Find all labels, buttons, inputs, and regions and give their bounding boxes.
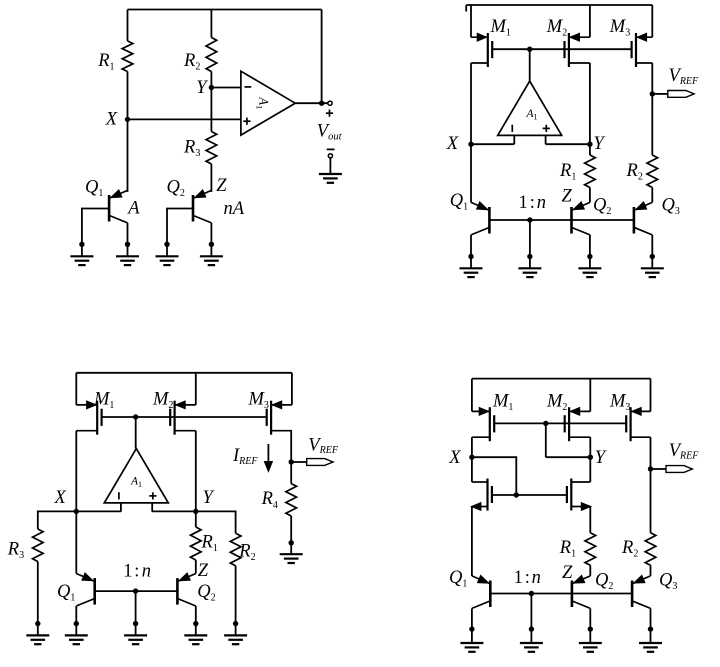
node VREF — [289, 459, 294, 464]
wire M1 drain to node X — [471, 437, 473, 482]
ground (Q3 collector) — [641, 267, 664, 269]
wire M3 drain to R4 through VREF node — [290, 431, 292, 484]
wire M4 source to Q1 emitter — [471, 507, 473, 576]
node base ground junction — [529, 626, 534, 631]
svg-text:M3: M3 — [248, 390, 269, 412]
wire rail to M1 source — [75, 373, 77, 405]
resistor R1 — [191, 527, 202, 560]
wire M5 source to R1 — [589, 507, 591, 533]
svg-text:Q2: Q2 — [593, 196, 611, 218]
node Q3 collector ground junction — [650, 254, 655, 259]
transistor M1 (PMOS) — [472, 407, 494, 441]
wire rail to M1 source — [470, 5, 472, 37]
wire M3 drain to R2 through VREF node — [650, 437, 652, 533]
ground (Q2 collector) — [200, 255, 223, 257]
resistor R2 — [230, 533, 241, 566]
svg-text:Z: Z — [216, 176, 227, 196]
wire gate rail M1-M2-M3 — [492, 48, 631, 50]
svg-text:Q1: Q1 — [85, 178, 103, 200]
ground (R4) — [280, 553, 303, 555]
wire node X to lower pair gates — [472, 457, 516, 495]
wire M3 drain to R2 through VREF node — [651, 63, 653, 155]
svg-text:Q1: Q1 — [450, 191, 468, 213]
node Y — [193, 509, 198, 514]
svg-text:R2: R2 — [621, 538, 638, 560]
wire R4 to ground — [290, 516, 292, 554]
svg-text:Vout: Vout — [317, 122, 343, 143]
wire node Y to noninverting input — [152, 510, 196, 512]
wire node X to R3 — [38, 511, 77, 529]
label + (Vout polarity) — [326, 112, 333, 114]
wire Q2 collector to ground — [210, 223, 212, 256]
wire gate rail M1-M2-M3 — [494, 422, 626, 424]
resistor R3 — [33, 529, 44, 562]
node R3 ground junction — [35, 621, 40, 626]
wire R1 to Q2 emitter through node Z — [589, 565, 591, 576]
wire rail to R1 — [127, 10, 129, 42]
svg-text:M2: M2 — [546, 392, 567, 414]
transistor Q2 (bipolar) — [177, 573, 195, 606]
arrow IREF (current direction) — [264, 444, 272, 472]
node X — [468, 142, 473, 147]
transistor M3 (PMOS) — [632, 33, 653, 67]
svg-text:M2: M2 — [546, 17, 567, 39]
node base rail junction — [527, 217, 532, 222]
wire rail to M3 source — [291, 373, 293, 405]
ground (Q1 collector) — [65, 634, 88, 636]
svg-text:M1: M1 — [490, 17, 511, 39]
wire R1 to Q2 emitter through node Z — [195, 560, 197, 574]
wire Q2 base to ground — [167, 209, 193, 257]
node Q2 collector ground junction — [193, 621, 198, 626]
terminal VREF flag — [291, 461, 307, 463]
wire Q1 collector to ground — [127, 223, 129, 256]
svg-text:M1: M1 — [93, 390, 114, 412]
wire node Y to noninverting input — [546, 143, 590, 145]
wire node Y to R2 — [196, 511, 236, 533]
wire rail to M3 source — [651, 5, 653, 37]
wire node X to inverting input — [76, 510, 121, 512]
transistor Q1 (area A) — [109, 190, 127, 223]
svg-text:n: n — [142, 561, 151, 581]
node X — [469, 455, 474, 460]
node Q2 collector ground junction — [588, 626, 593, 631]
node Q1 base ground junction — [79, 242, 84, 247]
svg-text:Q1: Q1 — [449, 568, 467, 590]
ground (Q1 collector) — [116, 255, 139, 257]
ground (R2) — [224, 634, 247, 636]
ground (Q2 collector) — [184, 634, 207, 636]
wire gate rail M1-M2-M3 — [102, 416, 267, 418]
node Q2 collector ground junction — [587, 254, 592, 259]
node Q3 collector ground junction — [648, 626, 653, 631]
op-amp A1 (output up) — [498, 81, 562, 144]
wire output feedback up to rail — [321, 10, 323, 104]
node output junction — [319, 101, 324, 106]
ground (Q1 collector) — [460, 642, 483, 644]
svg-text:R4: R4 — [261, 489, 278, 511]
svg-text:R1: R1 — [201, 533, 218, 555]
wire rail to M3 source — [650, 379, 652, 412]
node lower gate rail junction — [514, 492, 519, 497]
svg-text:Z: Z — [198, 561, 209, 581]
svg-text:R3: R3 — [183, 138, 200, 160]
resistor R1 — [122, 41, 133, 72]
ground (base rail) — [520, 642, 543, 644]
svg-text:M3: M3 — [609, 392, 630, 414]
node Q1 collector ground junction — [74, 621, 79, 626]
node X — [125, 117, 130, 122]
svg-text:X: X — [105, 109, 118, 129]
wire base rail to ground — [530, 594, 532, 644]
transistor M4 (cross-coupled NMOS left) — [471, 479, 492, 511]
transistor Q1 (bipolar) — [76, 573, 94, 606]
wire R3 to Q2 emitter through node Z — [210, 164, 212, 192]
wire base rail Q1-Q2-Q3 — [489, 219, 634, 221]
node Q2 base ground junction — [164, 242, 169, 247]
wire gate rail to op-amp output — [135, 417, 137, 449]
ground (Q2 base) — [156, 255, 179, 257]
node base ground junction — [527, 254, 532, 259]
svg-text:Q2: Q2 — [167, 178, 185, 200]
svg-text:M1: M1 — [492, 392, 513, 414]
node Q1 collector ground junction — [468, 254, 473, 259]
wire top supply rail (circuit 2) — [466, 4, 652, 6]
wire R2 to R3 through node Y — [210, 72, 212, 132]
svg-text:Z: Z — [562, 563, 573, 583]
wire Q3 collector to ground — [651, 235, 653, 268]
wire R2 to ground — [235, 566, 237, 636]
node VREF — [650, 91, 655, 96]
svg-text:Q3: Q3 — [662, 196, 680, 218]
wire R1 to Q1 emitter through node X — [127, 72, 129, 192]
wire R3 to ground — [37, 562, 39, 636]
svg-text:Q2: Q2 — [197, 582, 215, 604]
node Y — [587, 142, 592, 147]
ground (base rail) — [518, 267, 541, 269]
svg-text:M3: M3 — [609, 17, 630, 39]
svg-text::: : — [525, 568, 530, 588]
transistor Q1 (bipolar) — [472, 575, 490, 608]
terminal VREF flag — [652, 93, 668, 95]
resistor R1 — [585, 533, 596, 566]
node base ground junction — [133, 621, 138, 626]
ground (Q1 collector) — [460, 267, 483, 269]
wire base rail to ground — [529, 220, 531, 268]
wire rail to M2 source — [589, 5, 591, 37]
wire gate tap to node Y — [546, 456, 591, 458]
svg-text:Q1: Q1 — [57, 582, 75, 604]
wire node X to inverting input — [471, 143, 514, 145]
transistor M2 (PMOS) — [565, 33, 590, 67]
transistor Q2 (area nA) — [193, 190, 211, 223]
svg-text:Z: Z — [562, 187, 573, 207]
node Q1 collector ground junction — [469, 626, 474, 631]
svg-text:nA: nA — [224, 199, 245, 219]
svg-text:Y: Y — [196, 78, 208, 98]
svg-text:R2: R2 — [238, 542, 255, 564]
wire rail end tick — [465, 5, 467, 12]
wire R2 to Q3 emitter — [650, 565, 652, 576]
ground (Q1 base) — [70, 255, 93, 257]
ground (Q3 collector) — [639, 642, 662, 644]
wire Q2 collector to ground — [195, 606, 197, 635]
wire Q1 base to ground — [82, 209, 109, 257]
transistor Q2 (bipolar) — [572, 575, 590, 608]
terminal VREF flag — [651, 468, 667, 470]
wire M2 drain to node Y — [195, 431, 197, 527]
resistor R3 — [206, 132, 217, 165]
svg-text:VREF: VREF — [308, 435, 339, 456]
node Y — [209, 85, 214, 90]
svg-text:A1: A1 — [525, 108, 537, 121]
node base rail junction — [133, 588, 138, 593]
wire M2 drain to node Y — [589, 437, 591, 482]
wire rail to R2 — [210, 10, 212, 38]
resistor R2 — [645, 533, 656, 566]
wire Q1 collector to ground — [75, 606, 77, 635]
node gate rail junction — [527, 47, 532, 52]
svg-text:X: X — [448, 448, 461, 468]
wire Vout negative terminal to ground — [329, 158, 331, 174]
transistor M5 (cross-coupled NMOS right) — [567, 479, 591, 511]
svg-text:n: n — [532, 568, 541, 588]
svg-text:1: 1 — [514, 568, 523, 588]
svg-text::: : — [134, 561, 139, 581]
wire base rail to ground — [135, 591, 137, 635]
wire top supply rail (circuit 4) — [472, 378, 651, 380]
svg-text:Y: Y — [203, 488, 215, 508]
resistor R4 — [286, 484, 297, 516]
ground (base rail) — [124, 634, 147, 636]
transistor Q3 (bipolar) — [632, 575, 650, 608]
transistor M1 (PMOS) — [471, 33, 492, 67]
transistor M2 (PMOS) — [565, 407, 591, 441]
svg-text:R1: R1 — [559, 538, 576, 560]
svg-text:n: n — [537, 193, 546, 213]
wire Q2 collector to ground — [589, 608, 591, 643]
resistor R1 — [585, 155, 596, 188]
transistor Q3 (bipolar) — [634, 202, 652, 235]
svg-text:R1: R1 — [559, 161, 576, 183]
svg-text:M2: M2 — [152, 390, 173, 412]
wire rail to M2 source — [589, 379, 591, 412]
wire Q1 collector to ground — [471, 608, 473, 643]
resistor R2 — [647, 155, 658, 188]
node base rail junction — [529, 591, 534, 596]
ground (Q2 collector) — [579, 642, 602, 644]
transistor M3 (PMOS) — [267, 401, 292, 435]
label minus (Vout polarity) — [327, 148, 335, 150]
svg-text:A1: A1 — [130, 476, 142, 489]
transistor M3 (PMOS) — [626, 407, 650, 441]
wire M2 drain to node Y — [589, 63, 591, 155]
wire base rail Q1-Q2-Q3 — [490, 593, 632, 595]
resistor R2 — [206, 38, 217, 72]
svg-text:IREF: IREF — [232, 446, 258, 467]
wire R2 to Q3 emitter — [651, 188, 653, 203]
wire node Y to op-amp inverting input — [211, 87, 241, 89]
svg-text:R1: R1 — [97, 51, 114, 73]
node gate rail junction — [133, 414, 138, 419]
wire Q2 collector to ground — [589, 235, 591, 268]
op-amp A1 (output to the right) — [241, 71, 295, 135]
wire lower gate rail — [492, 494, 567, 496]
transistor M1 (PMOS) — [76, 401, 101, 435]
node VREF — [648, 466, 653, 471]
wire gate rail to op-amp output — [529, 49, 531, 81]
op-amp A1 (output up) — [104, 449, 168, 512]
wire rail to M2 source — [195, 373, 197, 405]
wire node X to op-amp noninverting input — [128, 118, 241, 120]
transistor Q1 (bipolar) — [471, 202, 489, 235]
svg-text:R2: R2 — [626, 161, 643, 183]
svg-text:Y: Y — [593, 134, 605, 154]
ground (Q2 collector) — [578, 267, 601, 269]
wire base rail Q1-Q2 — [95, 590, 178, 592]
node top gate rail junction — [543, 421, 548, 426]
svg-text:A: A — [126, 199, 140, 219]
svg-text:R2: R2 — [183, 51, 200, 73]
wire top gate rail to node Y — [545, 423, 547, 457]
svg-text:A1: A1 — [255, 96, 271, 109]
node R2 ground junction — [233, 621, 238, 626]
svg-text:Y: Y — [595, 448, 607, 468]
wire op-amp output — [295, 102, 328, 104]
wire rail to M1 source — [471, 379, 473, 412]
node Q2 collector ground junction — [209, 242, 214, 247]
svg-text:X: X — [54, 488, 67, 508]
svg-text:VREF: VREF — [669, 441, 700, 462]
svg-text:1: 1 — [519, 193, 528, 213]
terminal Vout negative — [328, 154, 332, 158]
svg-text:X: X — [446, 134, 459, 154]
ground (R3) — [26, 634, 49, 636]
svg-text::: : — [530, 193, 535, 213]
terminal Vout positive — [328, 101, 332, 105]
node R4 ground junction — [289, 540, 294, 545]
svg-text:1: 1 — [123, 561, 132, 581]
wire M1 drain to Q1 emitter through node X — [470, 63, 472, 202]
ground (Vout return) — [319, 173, 342, 175]
wire top supply rail (circuit 1) — [128, 9, 322, 11]
wire top supply rail (circuit 3) — [76, 372, 292, 374]
svg-text:R3: R3 — [7, 539, 24, 561]
node X — [74, 509, 79, 514]
svg-text:VREF: VREF — [669, 66, 700, 87]
node Y — [588, 455, 593, 460]
svg-text:Q2: Q2 — [595, 571, 613, 593]
transistor M2 (PMOS) — [170, 401, 196, 435]
wire M1 drain to Q1 emitter through node X — [75, 431, 77, 574]
node Q1 collector ground junction — [125, 242, 130, 247]
wire R1 to Q2 emitter through node Z — [589, 188, 591, 203]
transistor Q2 (bipolar) — [572, 202, 590, 235]
svg-text:Q3: Q3 — [659, 571, 677, 593]
wire Q3 collector to ground — [650, 608, 652, 643]
wire Q1 collector to ground — [470, 235, 472, 268]
